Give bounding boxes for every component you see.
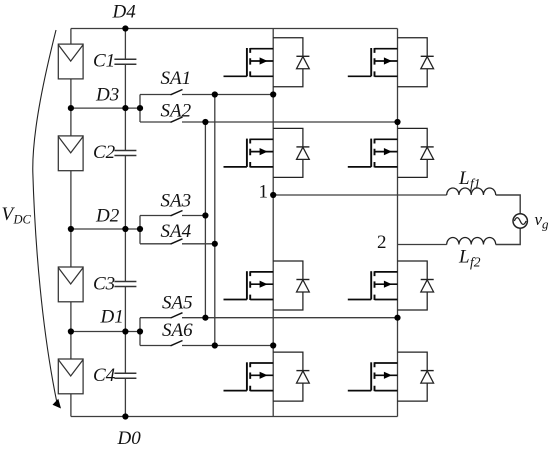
svg-text:SA5: SA5 [162,293,193,314]
svg-text:C2: C2 [93,142,116,163]
svg-text:f1: f1 [470,176,481,191]
svg-text:D0: D0 [117,428,142,449]
svg-text:g: g [542,217,549,232]
svg-text:SA2: SA2 [161,101,192,122]
svg-text:f2: f2 [470,255,481,270]
svg-text:C1: C1 [93,51,115,72]
svg-text:C4: C4 [93,365,116,386]
svg-text:1: 1 [259,182,269,203]
svg-text:D2: D2 [95,206,120,227]
svg-text:L: L [458,247,470,268]
svg-text:D1: D1 [100,307,124,328]
svg-text:SA4: SA4 [161,221,192,242]
svg-text:2: 2 [377,232,387,253]
svg-text:DC: DC [13,213,32,227]
svg-text:SA3: SA3 [161,191,192,212]
svg-text:SA1: SA1 [161,68,192,89]
svg-text:D4: D4 [112,2,137,23]
svg-text:D3: D3 [95,85,119,106]
svg-text:C3: C3 [93,274,115,295]
svg-text:L: L [458,168,470,189]
svg-text:SA6: SA6 [162,320,193,341]
